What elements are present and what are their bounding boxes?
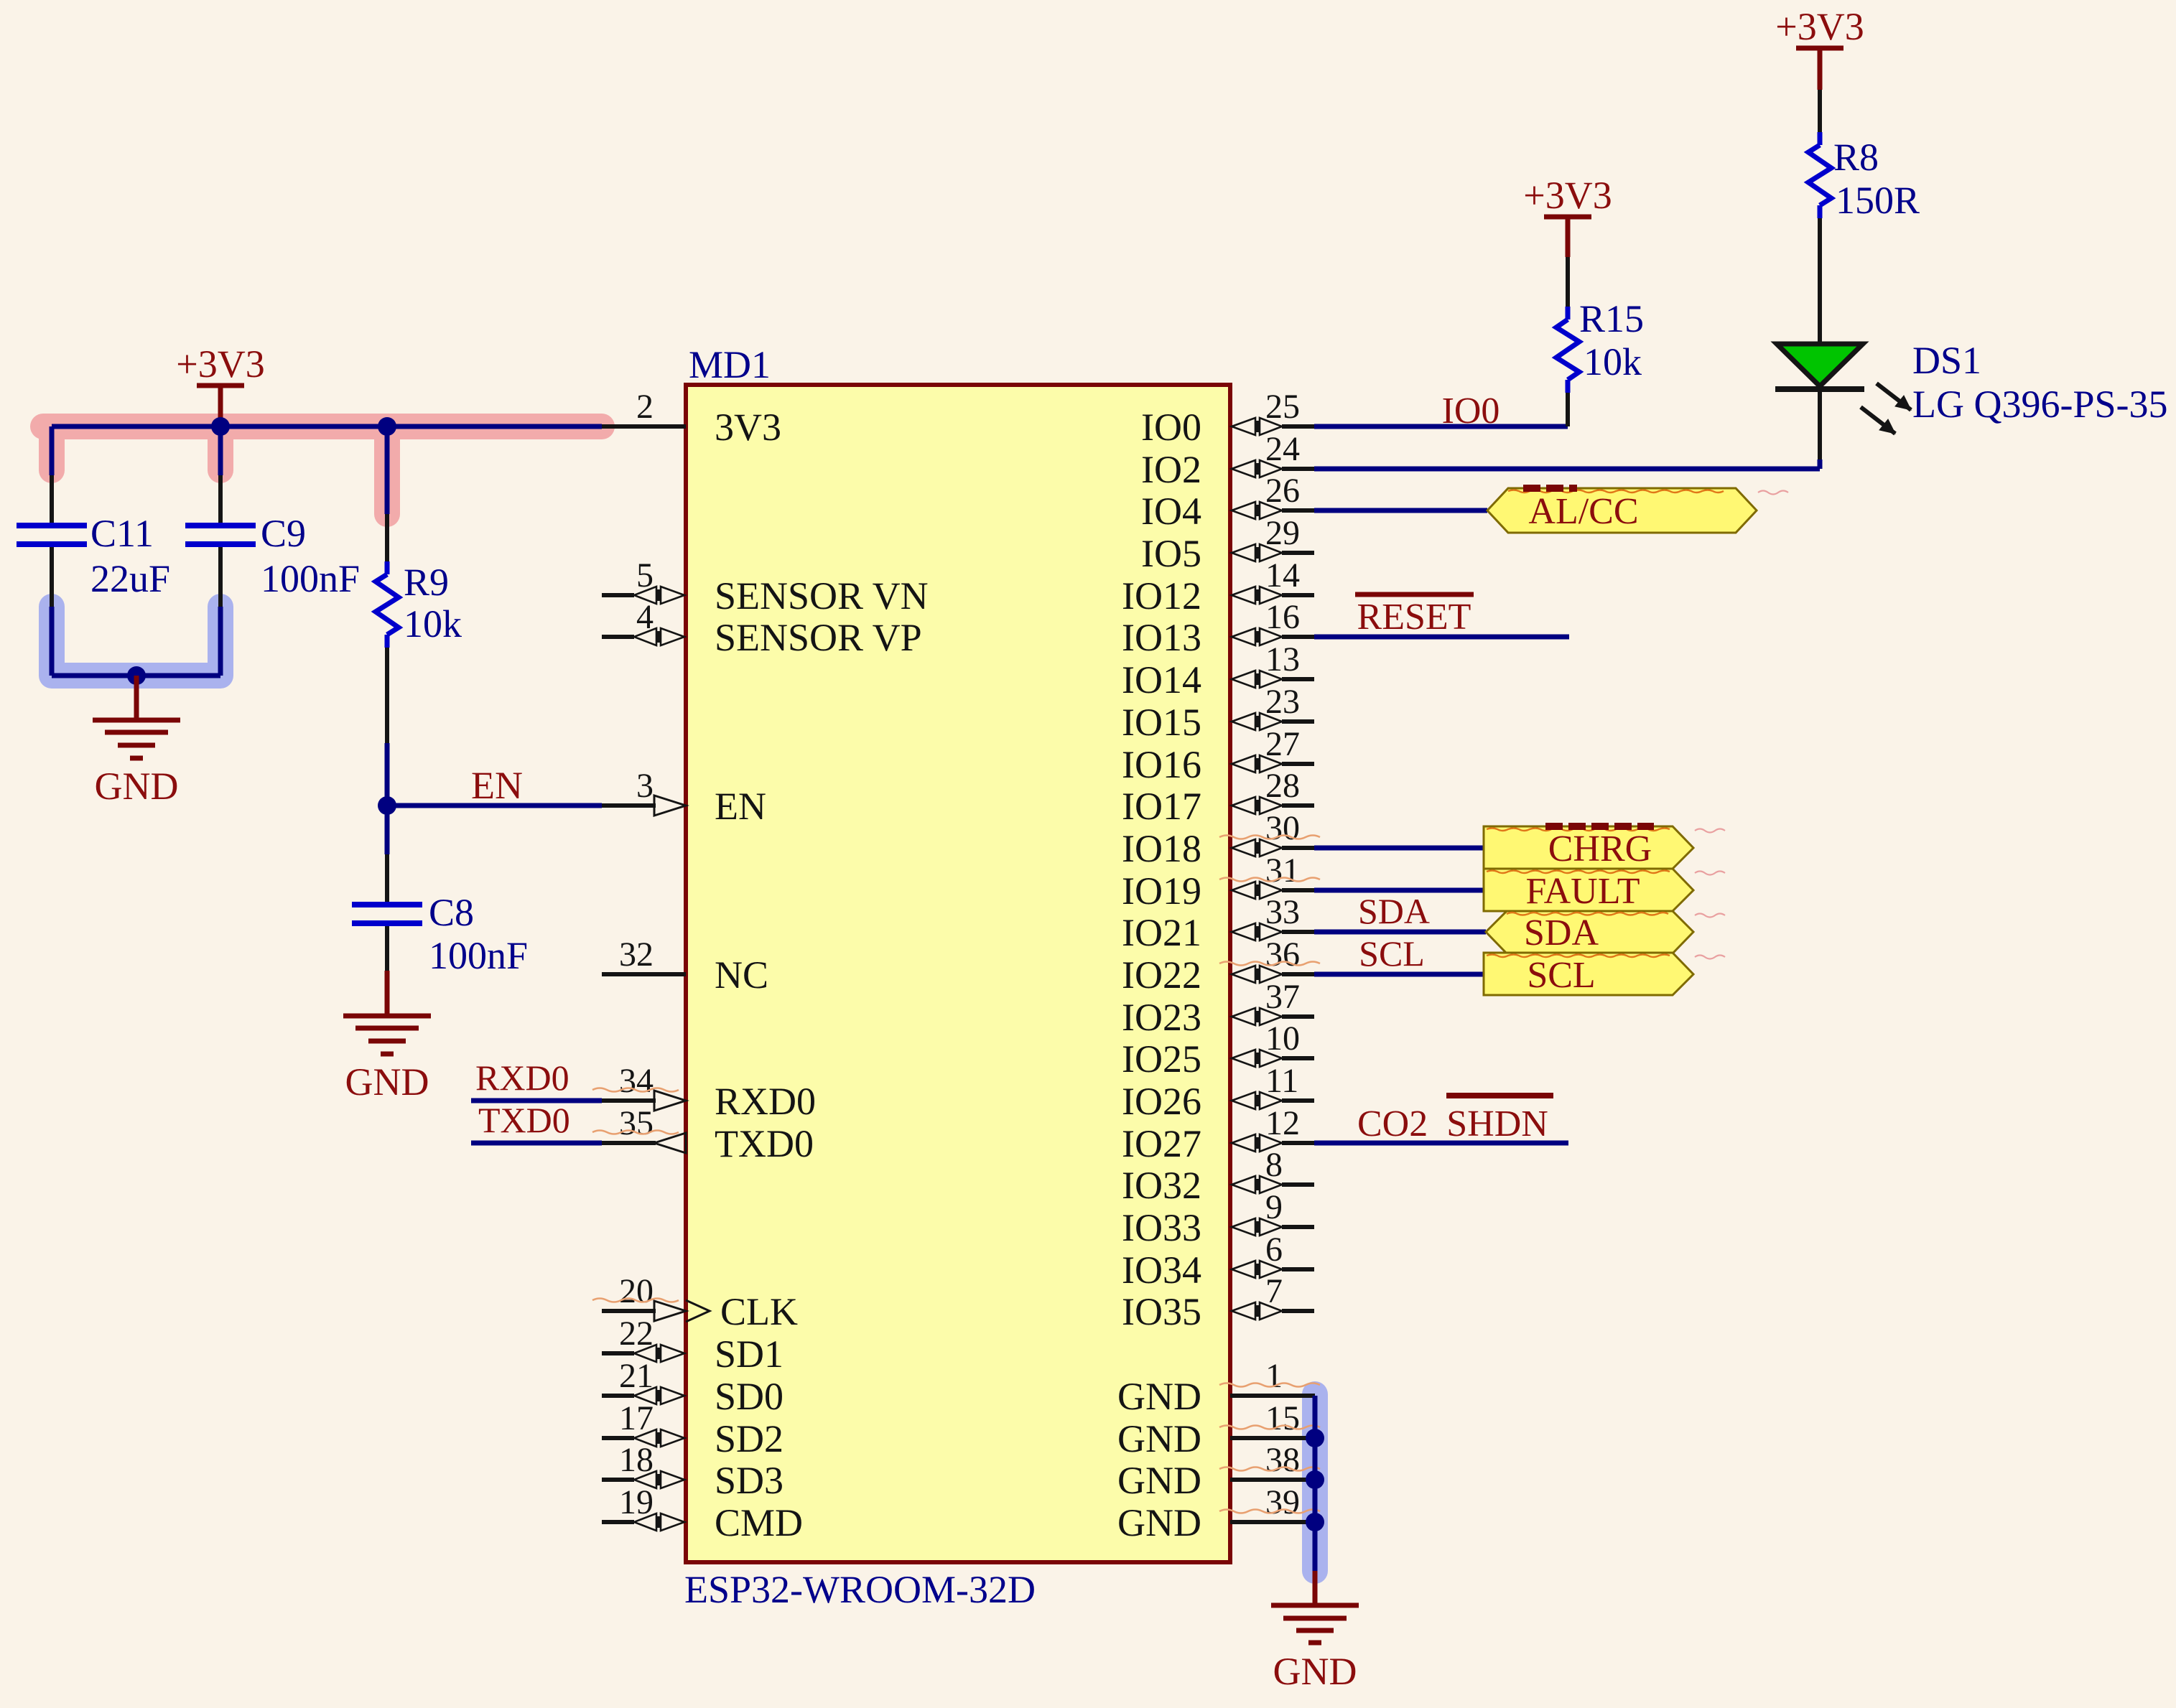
svg-text:21: 21 <box>619 1357 654 1395</box>
pin 32 NC (left) <box>602 972 686 976</box>
pin 29 IO5 (right) <box>1282 551 1314 555</box>
svg-text:8: 8 <box>1265 1146 1283 1184</box>
wire IO27 CO2 SHDN <box>1314 1141 1568 1146</box>
ground GND (left) <box>93 718 180 723</box>
wire EN to C8 <box>385 806 390 854</box>
svg-text:33: 33 <box>1265 893 1300 931</box>
svg-text:22uF: 22uF <box>90 557 170 600</box>
svg-text:SENSOR VN: SENSOR VN <box>715 574 929 617</box>
svg-text:9: 9 <box>1265 1188 1283 1226</box>
svg-text:EN: EN <box>715 785 766 828</box>
svg-text:10k: 10k <box>404 602 462 645</box>
pin 19 CMD (left) <box>602 1520 634 1524</box>
pin 25 IO0 (right) <box>1282 424 1314 429</box>
svg-text:5: 5 <box>636 556 654 594</box>
capacitor C8 <box>385 854 389 902</box>
svg-text:GND: GND <box>1117 1459 1201 1502</box>
svg-text:+3V3: +3V3 <box>1523 174 1612 217</box>
svg-text:IO35: IO35 <box>1122 1290 1201 1333</box>
wire GND stem right <box>1313 1571 1318 1605</box>
svg-text:C11: C11 <box>90 512 154 555</box>
capacitor C11 <box>50 475 54 523</box>
svg-text:23: 23 <box>1265 683 1300 721</box>
svg-text:IO2: IO2 <box>1141 448 1201 491</box>
wire IO13 RESET <box>1314 635 1569 640</box>
svg-text:12: 12 <box>1265 1104 1300 1142</box>
svg-text:IO34: IO34 <box>1122 1249 1201 1292</box>
pin 12 IO27 (right) <box>1282 1141 1314 1145</box>
svg-text:IO21: IO21 <box>1122 911 1201 954</box>
svg-text:19: 19 <box>619 1483 654 1521</box>
pin 7 IO35 (right) <box>1282 1309 1314 1313</box>
svg-text:SENSOR VP: SENSOR VP <box>715 616 922 659</box>
svg-text:22: 22 <box>619 1315 654 1353</box>
pin 3 EN (left) <box>602 803 656 808</box>
svg-text:IO16: IO16 <box>1122 743 1201 786</box>
wire GND bus right <box>1230 1394 1315 1398</box>
svg-text:4: 4 <box>636 598 654 636</box>
svg-text:3V3: 3V3 <box>715 406 781 449</box>
svg-text:IO26: IO26 <box>1122 1080 1201 1123</box>
svg-text:SD1: SD1 <box>715 1333 784 1376</box>
ground GND (right) <box>1271 1603 1359 1608</box>
svg-text:RXD0: RXD0 <box>475 1058 569 1098</box>
wire +3V3 stem <box>218 386 223 426</box>
svg-text:GND: GND <box>345 1060 429 1103</box>
svg-text:2: 2 <box>636 388 654 426</box>
svg-text:36: 36 <box>1265 935 1300 974</box>
svg-text:R9: R9 <box>404 561 449 604</box>
svg-text:IO19: IO19 <box>1122 869 1201 913</box>
svg-text:TXD0: TXD0 <box>715 1122 814 1165</box>
power +3V3 (R8) <box>1818 48 1823 90</box>
svg-text:15: 15 <box>1265 1399 1300 1437</box>
svg-text:EN: EN <box>471 764 523 807</box>
svg-text:IO12: IO12 <box>1122 574 1201 617</box>
ground GND (C8) <box>343 1014 431 1019</box>
svg-text:38: 38 <box>1265 1441 1300 1479</box>
svg-text:C8: C8 <box>429 891 474 934</box>
junction GND pins <box>1306 1429 1324 1447</box>
pin 14 IO12 (right) <box>1282 593 1314 597</box>
svg-text:IO13: IO13 <box>1122 616 1201 659</box>
LED DS1 <box>1818 391 1822 459</box>
svg-text:10k: 10k <box>1584 340 1642 383</box>
pin 18 SD3 (left) <box>602 1478 634 1482</box>
svg-text:IO5: IO5 <box>1141 532 1201 575</box>
svg-text:35: 35 <box>619 1104 654 1142</box>
junction +3V3/C9 <box>211 417 230 436</box>
pin 35 TXD0 (left) <box>602 1141 656 1145</box>
svg-text:GND: GND <box>1117 1375 1201 1418</box>
pin 20 CLK (left) <box>602 1309 656 1313</box>
svg-text:IO0: IO0 <box>1141 406 1201 449</box>
pin 31 IO19 (right) <box>1282 888 1314 892</box>
svg-text:SD0: SD0 <box>715 1375 784 1418</box>
wire IO19 to FAULT <box>1314 888 1484 893</box>
svg-text:28: 28 <box>1265 767 1300 805</box>
svg-text:26: 26 <box>1265 472 1300 510</box>
wire GND stem left <box>134 676 139 720</box>
resistor R8 <box>1818 218 1822 344</box>
svg-text:SDA: SDA <box>1358 891 1430 931</box>
pin 27 IO16 (right) <box>1282 762 1314 766</box>
resistor R15 <box>1566 393 1570 426</box>
pin 16 IO13 (right) <box>1282 635 1314 639</box>
svg-text:10: 10 <box>1265 1019 1300 1058</box>
svg-text:R15: R15 <box>1579 297 1644 340</box>
wire EN net <box>385 743 390 806</box>
svg-text:34: 34 <box>619 1062 654 1100</box>
svg-text:29: 29 <box>1265 514 1300 552</box>
pin 30 IO18 (right) <box>1282 846 1314 850</box>
svg-text:14: 14 <box>1265 556 1300 594</box>
svg-text:13: 13 <box>1265 640 1300 678</box>
pin 15 GND (right) <box>1230 1436 1314 1440</box>
svg-text:RESET: RESET <box>1357 597 1471 638</box>
svg-text:IO17: IO17 <box>1122 785 1201 828</box>
pin 17 SD2 (left) <box>602 1436 634 1440</box>
svg-text:SDA: SDA <box>1524 913 1599 953</box>
resistor R9 <box>385 514 389 561</box>
svg-text:C9: C9 <box>261 512 306 555</box>
svg-text:ESP32-WROOM-32D: ESP32-WROOM-32D <box>684 1568 1036 1611</box>
wire IO0 net <box>1314 424 1568 429</box>
svg-text:RXD0: RXD0 <box>715 1080 816 1123</box>
svg-text:20: 20 <box>619 1272 654 1310</box>
junction EN <box>378 796 396 815</box>
svg-text:FAULT: FAULT <box>1526 871 1640 912</box>
svg-text:+3V3: +3V3 <box>176 342 264 386</box>
svg-text:100nF: 100nF <box>429 934 528 977</box>
pin 6 IO34 (right) <box>1282 1267 1314 1271</box>
svg-text:IO27: IO27 <box>1122 1122 1201 1165</box>
port SDA <box>1486 911 1693 953</box>
LED light arrows <box>1877 383 1911 410</box>
pin 33 IO21 (right) <box>1282 930 1314 934</box>
pin 1 GND (right) <box>1230 1394 1314 1398</box>
svg-text:32: 32 <box>619 935 654 974</box>
svg-text:37: 37 <box>1265 978 1300 1016</box>
pin 8 IO32 (right) <box>1282 1182 1314 1187</box>
svg-text:IO32: IO32 <box>1122 1164 1201 1207</box>
svg-text:AL/CC: AL/CC <box>1528 491 1638 532</box>
wire IO2 net to LED <box>1314 467 1820 472</box>
svg-text:IO33: IO33 <box>1122 1206 1201 1249</box>
svg-text:LG Q396-PS-35: LG Q396-PS-35 <box>1912 383 2168 426</box>
junction GND left <box>127 666 146 685</box>
svg-text:16: 16 <box>1265 598 1300 636</box>
pin 22 SD1 (left) <box>602 1351 634 1355</box>
power +3V3 (R15) <box>1566 217 1571 257</box>
svg-text:30: 30 <box>1265 809 1300 847</box>
svg-text:150R: 150R <box>1836 179 1920 222</box>
capacitor C9 <box>218 475 223 523</box>
svg-text:6: 6 <box>1265 1231 1283 1269</box>
port SCL <box>1484 953 1693 995</box>
svg-text:25: 25 <box>1265 388 1300 426</box>
pin 38 GND (right) <box>1230 1478 1314 1482</box>
pin 39 GND (right) <box>1230 1520 1314 1524</box>
wire +3V3 rail <box>52 424 602 429</box>
svg-text:SD3: SD3 <box>715 1459 784 1502</box>
svg-text:CLK: CLK <box>720 1290 798 1333</box>
svg-text:1: 1 <box>1265 1357 1283 1395</box>
svg-text:27: 27 <box>1265 725 1300 763</box>
pin 4 SENSOR VP (left) <box>602 635 634 639</box>
svg-text:17: 17 <box>619 1399 654 1437</box>
svg-text:GND: GND <box>1273 1650 1357 1693</box>
svg-text:NC: NC <box>715 953 768 997</box>
module MD1 ESP32-WROOM-32D body <box>686 385 1230 1562</box>
svg-text:18: 18 <box>619 1441 654 1479</box>
svg-text:SCL: SCL <box>1359 933 1425 974</box>
pin 36 IO22 (right) <box>1282 972 1314 976</box>
svg-text:100nF: 100nF <box>261 557 360 600</box>
pin 10 IO25 (right) <box>1282 1056 1314 1060</box>
pin 21 SD0 (left) <box>602 1394 634 1398</box>
svg-text:IO14: IO14 <box>1122 658 1201 701</box>
svg-text:GND: GND <box>1117 1417 1201 1460</box>
pin 23 IO15 (right) <box>1282 719 1314 724</box>
svg-text:CHRG: CHRG <box>1548 829 1652 869</box>
pin 13 IO14 (right) <box>1282 677 1314 681</box>
wire IO4 to AL/CC <box>1314 508 1487 513</box>
svg-text:IO4: IO4 <box>1141 490 1201 533</box>
junction +3V3/R9 <box>378 417 396 436</box>
wire GND left rail <box>50 607 55 676</box>
svg-text:SD2: SD2 <box>715 1417 784 1460</box>
wire GND stem C8 <box>385 971 390 1016</box>
svg-text:IO23: IO23 <box>1122 996 1201 1039</box>
pin 2 3V3 (left) <box>602 424 686 429</box>
port CHRG <box>1484 826 1693 869</box>
pin 9 IO33 (right) <box>1282 1225 1314 1229</box>
svg-text:R8: R8 <box>1833 136 1879 179</box>
svg-text:IO15: IO15 <box>1122 701 1201 744</box>
svg-text:GND: GND <box>1117 1501 1201 1544</box>
wire RXD0 <box>471 1098 602 1103</box>
wire IO22 to SCL <box>1314 972 1484 977</box>
svg-text:GND: GND <box>95 765 179 808</box>
svg-text:IO22: IO22 <box>1122 953 1201 997</box>
svg-text:IO18: IO18 <box>1122 827 1201 870</box>
svg-text:+3V3: +3V3 <box>1775 5 1864 48</box>
svg-text:39: 39 <box>1265 1483 1300 1521</box>
port FAULT <box>1484 869 1693 911</box>
svg-text:11: 11 <box>1265 1062 1298 1100</box>
net highlight GND left (blue) <box>52 607 1315 1571</box>
pin 28 IO17 (right) <box>1282 803 1314 808</box>
svg-text:SCL: SCL <box>1527 955 1595 996</box>
svg-text:CO2 SHDN: CO2 SHDN <box>1357 1103 1548 1144</box>
wire IO18 to CHRG <box>1314 846 1484 851</box>
port AL/CC <box>1487 488 1757 533</box>
svg-text:MD1: MD1 <box>689 343 771 386</box>
svg-text:IO25: IO25 <box>1122 1037 1201 1081</box>
pin 34 RXD0 (left) <box>602 1098 656 1103</box>
pin 5 SENSOR VN (left) <box>602 593 634 597</box>
svg-text:24: 24 <box>1265 430 1300 468</box>
pin 37 IO23 (right) <box>1282 1014 1314 1019</box>
pin 11 IO26 (right) <box>1282 1098 1314 1103</box>
svg-text:31: 31 <box>1265 851 1300 890</box>
svg-text:7: 7 <box>1265 1272 1283 1310</box>
svg-text:TXD0: TXD0 <box>478 1100 570 1140</box>
wire TXD0 <box>471 1141 602 1146</box>
pin 26 IO4 (right) <box>1282 508 1314 513</box>
pin 24 IO2 (right) <box>1282 467 1314 471</box>
net highlight +3V3 (pink) <box>43 426 602 514</box>
svg-text:CMD: CMD <box>715 1501 803 1544</box>
svg-text:3: 3 <box>636 767 654 805</box>
svg-text:DS1: DS1 <box>1912 339 1981 382</box>
wire IO21 to SDA <box>1314 930 1486 935</box>
